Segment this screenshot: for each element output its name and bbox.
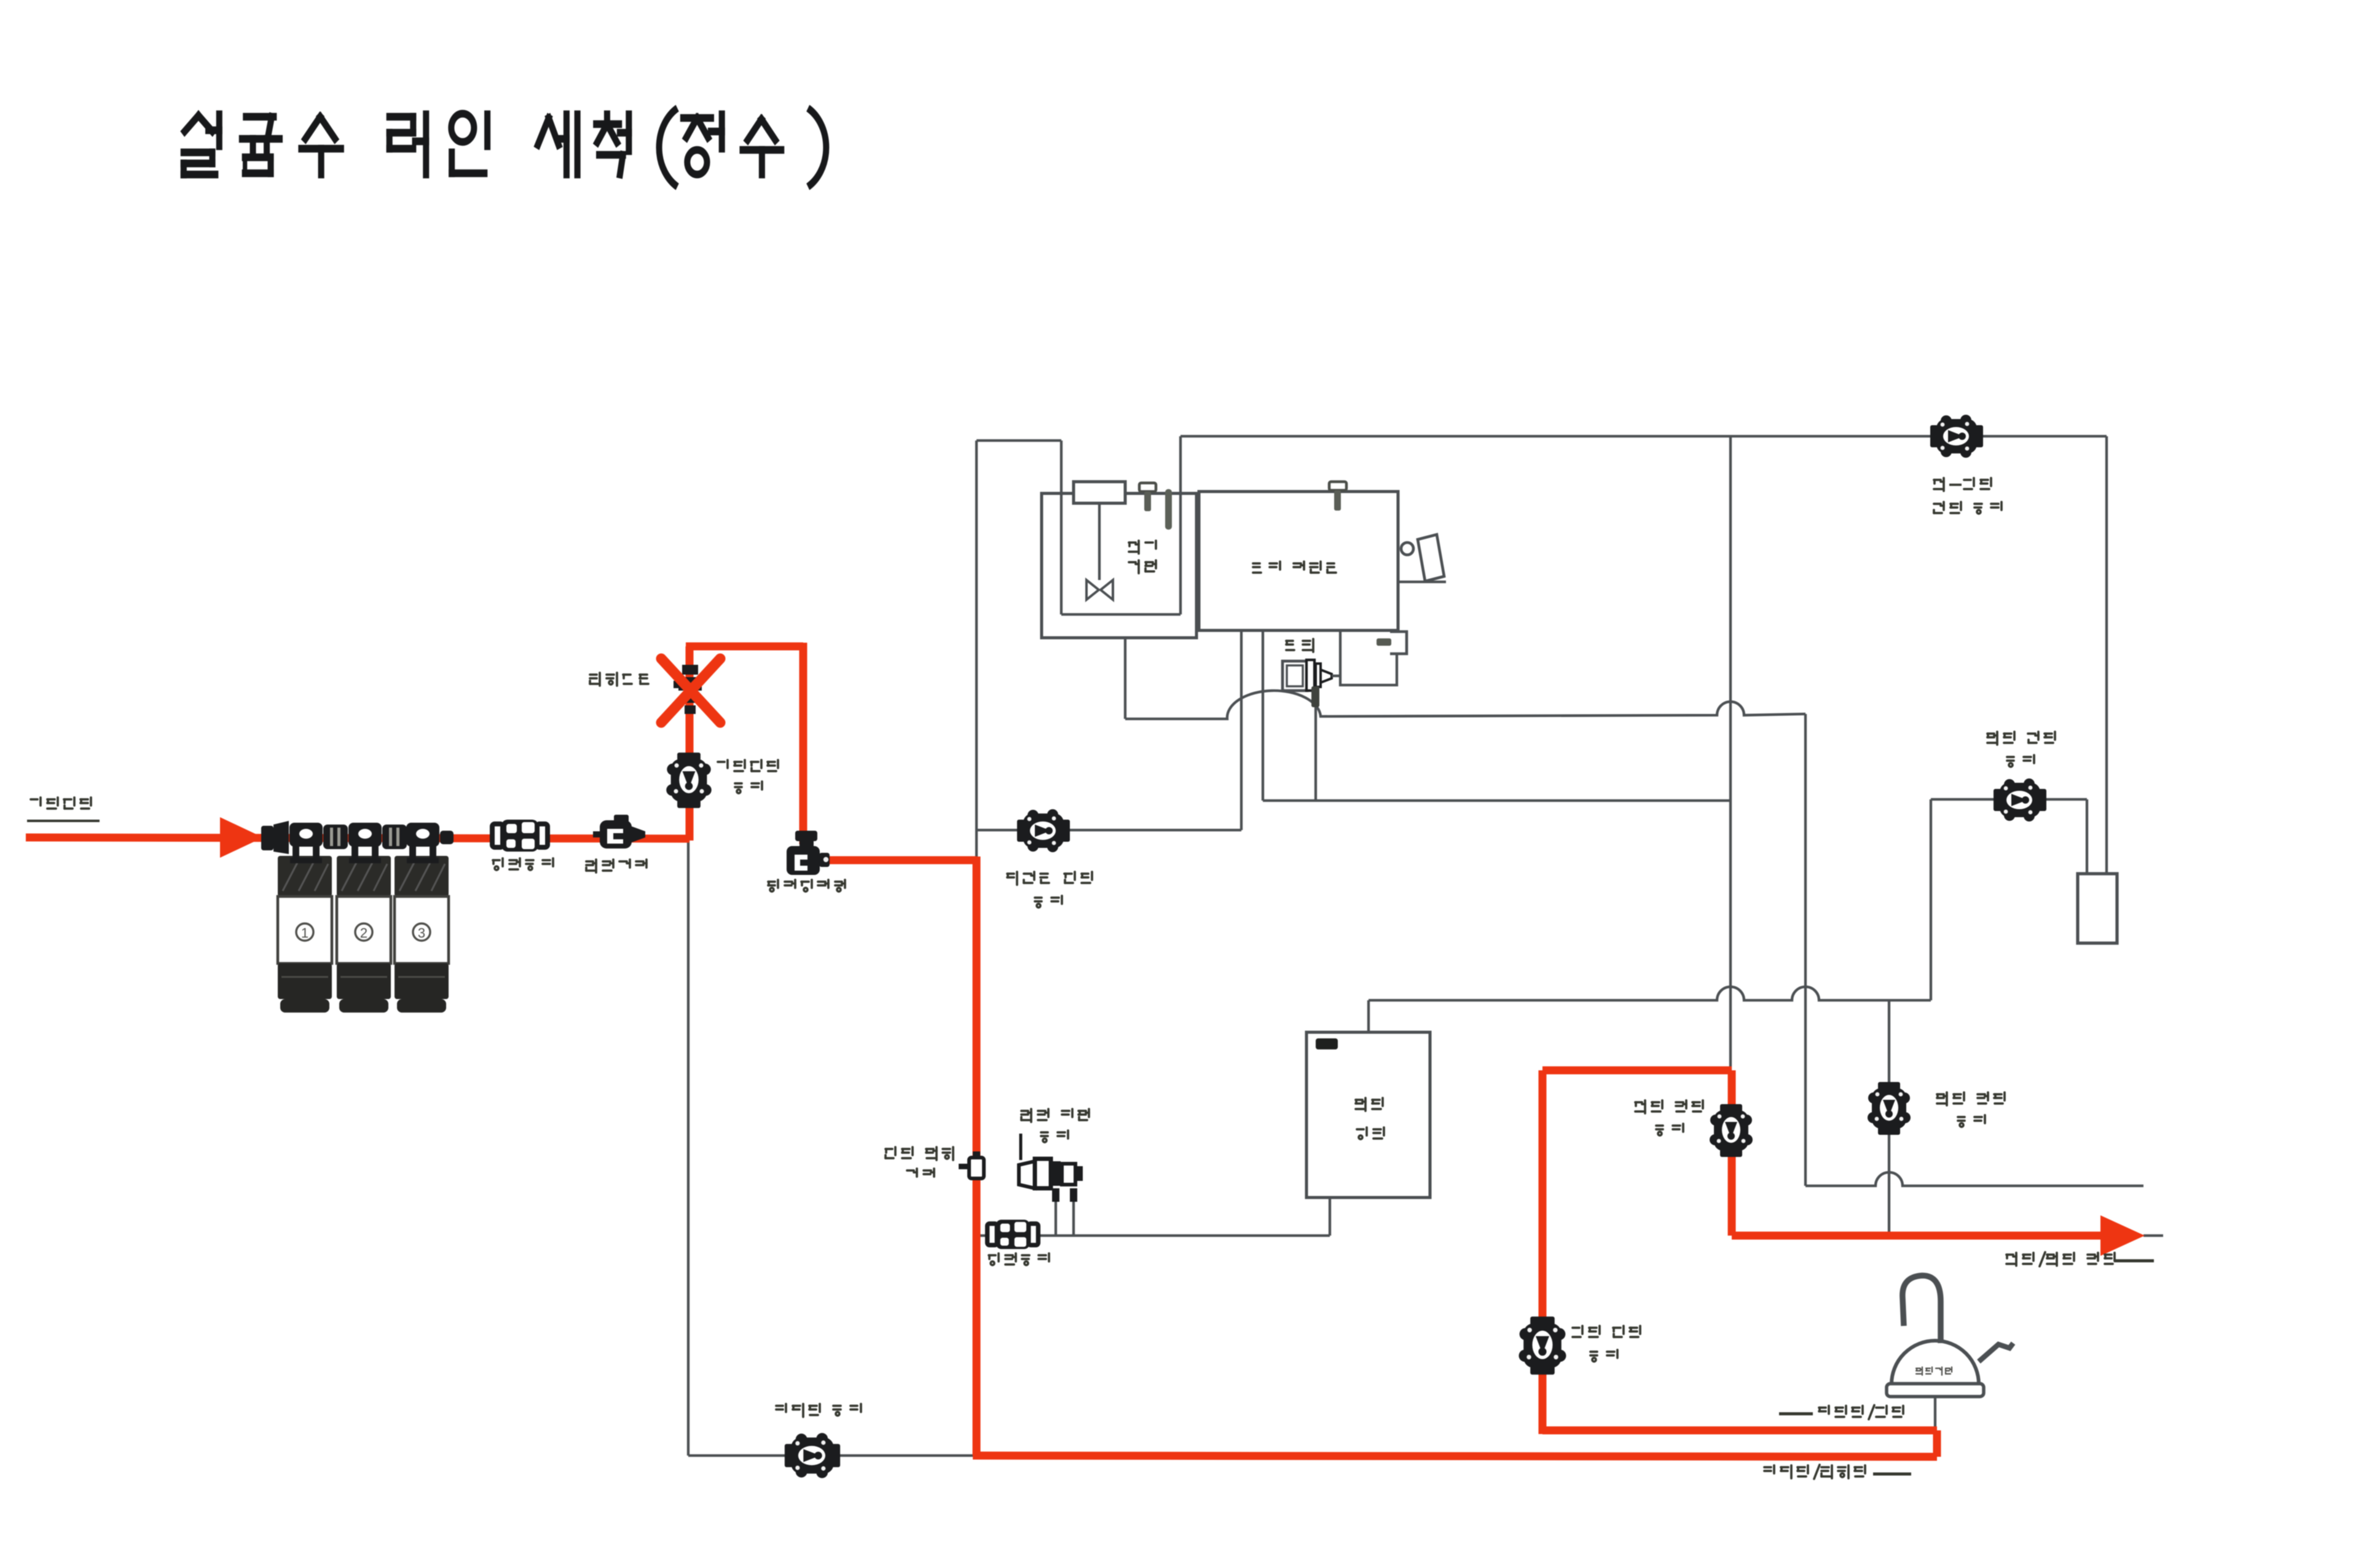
pump spigot bar xyxy=(1377,638,1391,646)
wire cold outlet down-comer xyxy=(2105,436,2108,875)
wire cold drain branch xyxy=(1729,436,1732,1072)
red return riser xyxy=(1933,1430,1941,1457)
wire faucet drop xyxy=(1934,1397,1936,1428)
stirrer blade right xyxy=(1101,580,1113,600)
red drop to strainer xyxy=(799,643,807,844)
label 온수 배수 line1 xyxy=(1937,1092,2005,1105)
tank bolt xyxy=(1139,483,1156,511)
red feed arrowhead xyxy=(220,817,263,858)
red feed main run xyxy=(26,837,689,839)
valve raw-water inlet (원수입수 밸브) xyxy=(666,753,712,808)
label 조리수/살균수 dash xyxy=(1873,1473,1911,1476)
heater badge xyxy=(1316,1038,1338,1049)
wire bottom drain run with bridge xyxy=(1805,1172,2143,1186)
label 온수 출수 line1 xyxy=(1987,732,2055,745)
wire top header to cold outlet xyxy=(1180,435,2107,437)
tank level bar xyxy=(1165,489,1172,530)
filter manifold tee 2 xyxy=(348,823,382,863)
label 세척수/정수 dash xyxy=(1779,1413,1813,1416)
svg-text:3: 3 xyxy=(418,925,425,941)
wire tank overflow drop xyxy=(1124,638,1126,719)
wire tank drain run xyxy=(1263,799,1730,802)
red X over sterilizer xyxy=(661,659,720,723)
red top jog run xyxy=(686,643,803,651)
label 냉-정수 line1 xyxy=(1934,478,1991,491)
label 세척수/정수 xyxy=(1819,1405,1903,1419)
label 냉수 배수 line2 xyxy=(1656,1124,1683,1135)
title text 살균수 라인 세척(정수) xyxy=(184,108,827,187)
wire cooking branch run xyxy=(688,1454,976,1457)
red cross run xyxy=(1542,1067,1732,1075)
pump cone xyxy=(1321,670,1332,683)
wire cooling coil inlet drop xyxy=(1060,441,1063,614)
filter canister 1 xyxy=(278,856,332,1013)
stirrer shaft xyxy=(1098,503,1101,580)
label 감압밸브 (second) xyxy=(989,1253,1049,1265)
valve hot drain (온수 배수 밸브) xyxy=(1868,1082,1911,1135)
wire heater feed run xyxy=(978,1234,1330,1237)
label 탱크 xyxy=(1129,560,1156,573)
wire cold supply riser left xyxy=(975,441,978,861)
ice box bolt xyxy=(1329,482,1346,511)
wire mid collector run with bump bridges xyxy=(1125,691,1805,719)
pump cone tip wire xyxy=(1332,675,1340,677)
wire cooking branch drop xyxy=(687,839,689,1456)
label 제빙부 입수 line1 xyxy=(1007,872,1092,885)
red riser through inlet valve xyxy=(686,646,694,841)
valve cooking water (조리수 밸브) xyxy=(785,1433,840,1478)
label 원수입수 xyxy=(31,798,91,809)
red drain arrowhead xyxy=(2100,1215,2145,1256)
pressure reducing valve 2 (감압밸브) xyxy=(988,1220,1039,1249)
label 온수 (heater) xyxy=(1356,1098,1383,1111)
label 냉수 배수 line1 xyxy=(1635,1100,1703,1113)
label 입수 온도 line1 xyxy=(886,1147,953,1160)
label 히터 (heater) xyxy=(1357,1127,1384,1139)
valve icemaker inlet (제빙부 입수 밸브) xyxy=(1017,809,1070,852)
strainer (스트레이너) xyxy=(787,831,830,875)
wire hot-line riser xyxy=(1930,799,1932,1000)
wire cooling coil bottom run xyxy=(1061,613,1180,616)
valve cold/purified outlet (냉-정수 출수 밸브) xyxy=(1930,415,1983,458)
wire right drain riser xyxy=(1804,714,1807,1186)
ice chute plate xyxy=(1418,535,1444,581)
pump outlet bar xyxy=(1311,686,1319,707)
label 조리수/살균수 xyxy=(1764,1465,1865,1479)
wire flow-valve drop a xyxy=(1055,1188,1057,1236)
wire icemaker feed riser xyxy=(1240,630,1243,830)
label 유량 조절 line2 xyxy=(1041,1131,1068,1142)
ice chute shelf xyxy=(1398,581,1446,583)
red strainer outlet run xyxy=(821,857,976,864)
filter canister 2 xyxy=(337,856,391,1013)
pump plate a xyxy=(1306,660,1314,691)
label 유량 조절 line1 xyxy=(1021,1109,1089,1122)
flow sensor (유량센서) xyxy=(593,815,645,849)
wire flow-valve drop b xyxy=(1072,1188,1075,1236)
label 조리수 밸브 xyxy=(776,1404,861,1417)
wire heater top run with bridges xyxy=(1369,987,1931,1000)
inlet temp sensor (입수 온도 센서) xyxy=(959,1151,984,1178)
wire heater top stub xyxy=(1367,1000,1370,1033)
sterilizer module (살균모듈) xyxy=(674,665,702,714)
wire pump drop xyxy=(1314,706,1317,801)
pump spigot bracket xyxy=(1390,632,1407,654)
wire tank drain drop xyxy=(1262,630,1264,801)
label 살균모듈 xyxy=(590,673,648,686)
label 원수입수 밸브 line2 xyxy=(735,782,762,793)
label 냉수/온수 배수 xyxy=(2006,1252,2115,1266)
label 냉수/온수 배수 dash xyxy=(2114,1260,2154,1263)
svg-text:1: 1 xyxy=(301,925,308,941)
filter canister 3 xyxy=(395,856,449,1013)
wire icemaker feed run xyxy=(977,829,1241,831)
label 냉각 xyxy=(1129,541,1156,554)
label 스트레이너 xyxy=(768,880,845,892)
wire top header left stub xyxy=(976,439,1061,442)
svg-text:2: 2 xyxy=(360,925,367,941)
label 정수 입수 line2 xyxy=(1590,1350,1617,1362)
wire drain arrow tail stub xyxy=(2143,1234,2163,1237)
pressure reducing valve 1 (감압밸브) xyxy=(492,820,548,852)
valve hot outlet (온수 출수 밸브) xyxy=(1994,778,2046,821)
pump plate b xyxy=(1316,664,1321,687)
label 감압밸브 (left) xyxy=(493,858,553,870)
pump motor inner xyxy=(1287,665,1303,686)
wire cooling coil outlet riser xyxy=(1179,436,1182,614)
heater box xyxy=(1306,1032,1430,1198)
wire hot outlet drop to spout block xyxy=(2086,799,2088,875)
stirrer blade left xyxy=(1086,580,1099,600)
red drain out run xyxy=(1732,1232,2102,1240)
label 제빙부 입수 line2 xyxy=(1035,896,1062,907)
label 온수 출수 line2 xyxy=(2007,755,2034,767)
cooling tank box xyxy=(1042,493,1196,638)
ice chute circle xyxy=(1401,543,1413,555)
label 유량센서 xyxy=(586,860,646,872)
flow control valve (유량 조절 밸브) xyxy=(1019,1134,1083,1202)
faucet handle xyxy=(1979,1343,2013,1362)
filter manifold inlet fitting xyxy=(261,821,289,854)
stirrer motor xyxy=(1074,482,1125,503)
label 펌프 xyxy=(1286,639,1313,652)
label 얼음 저장부 xyxy=(1253,562,1336,573)
red bottom long run xyxy=(973,1456,1937,1457)
filter manifold tee 1 xyxy=(289,823,323,863)
pump housing xyxy=(1340,630,1397,685)
filter manifold link 2 xyxy=(382,825,407,849)
ice storage box xyxy=(1199,492,1398,630)
label 원수입수 underline xyxy=(27,820,100,822)
pump motor box xyxy=(1283,661,1307,691)
label 입수 온도 line2 xyxy=(907,1169,934,1177)
wire hot outlet run xyxy=(1931,798,2087,801)
node spout block xyxy=(2078,874,2117,943)
red return run xyxy=(1542,1427,1937,1435)
label 냉-정수 line2 xyxy=(1934,502,2002,514)
faucet tiny label xyxy=(1916,1367,1952,1375)
label 원수입수 밸브 line1 xyxy=(718,760,778,771)
filter manifold outlet fitting xyxy=(440,831,454,844)
faucet gooseneck xyxy=(1903,1276,1941,1343)
faucet dome xyxy=(1887,1341,1984,1397)
wire hot drain branch xyxy=(1888,1000,1890,1236)
red purified riser xyxy=(1539,1070,1547,1434)
red drain drop xyxy=(1728,1070,1736,1236)
valve purified inlet (정수 입수 밸브) xyxy=(1519,1317,1566,1375)
red main down-comer xyxy=(973,857,981,1456)
label 온수 배수 line2 xyxy=(1958,1115,1985,1127)
valve cold drain (냉수 배수 밸브) xyxy=(1710,1104,1753,1157)
wire heater bottom stub xyxy=(1329,1198,1331,1236)
filter manifold tee 3 xyxy=(406,823,439,863)
label 정수 입수 line1 xyxy=(1573,1326,1640,1337)
filter manifold link 1 xyxy=(323,825,348,849)
